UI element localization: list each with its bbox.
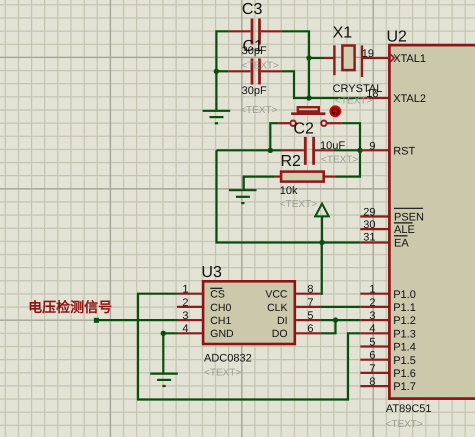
svg-text:8: 8: [307, 284, 313, 296]
svg-text:CLK: CLK: [267, 302, 287, 314]
svg-text:10uF: 10uF: [320, 140, 345, 152]
svg-text:X1: X1: [333, 25, 353, 42]
svg-text:ADC0832: ADC0832: [204, 353, 252, 365]
svg-text:EA: EA: [394, 237, 409, 249]
svg-text:4: 4: [369, 323, 375, 335]
svg-text:29: 29: [363, 206, 375, 218]
svg-text:电压检测信号: 电压检测信号: [28, 299, 112, 315]
svg-text:P1.5: P1.5: [393, 355, 416, 367]
svg-text:P1.4: P1.4: [393, 342, 416, 354]
svg-text:AT89C51: AT89C51: [386, 403, 432, 415]
svg-text:RST: RST: [393, 145, 415, 157]
svg-text:19: 19: [362, 48, 374, 60]
svg-text:6: 6: [307, 323, 313, 335]
svg-text:1: 1: [369, 284, 375, 296]
svg-text:<TEXT>: <TEXT>: [240, 105, 277, 116]
svg-text:R2: R2: [281, 153, 302, 170]
svg-text:<TEXT>: <TEXT>: [321, 154, 358, 165]
svg-text:7: 7: [307, 297, 313, 309]
svg-text:VCC: VCC: [265, 289, 288, 301]
svg-text:ALE: ALE: [394, 224, 415, 236]
svg-text:CH1: CH1: [210, 315, 231, 327]
svg-text:P1.1: P1.1: [393, 302, 416, 314]
svg-text:C3: C3: [242, 1, 263, 18]
svg-text:GND: GND: [210, 328, 234, 340]
svg-text:1: 1: [182, 284, 188, 296]
svg-text:30pF: 30pF: [242, 45, 267, 57]
svg-text:31: 31: [363, 232, 375, 244]
svg-text:3: 3: [182, 310, 188, 322]
svg-text:PSEN: PSEN: [394, 212, 424, 224]
svg-text:9: 9: [369, 140, 375, 152]
svg-text:8: 8: [369, 376, 375, 388]
svg-text:3: 3: [369, 310, 375, 322]
svg-text:C2: C2: [294, 121, 315, 138]
svg-text:10k: 10k: [280, 185, 298, 197]
svg-text:6: 6: [369, 350, 375, 362]
svg-text:P1.7: P1.7: [393, 381, 416, 393]
svg-text:4: 4: [182, 323, 188, 335]
svg-text:P1.0: P1.0: [393, 289, 416, 301]
svg-text:XTAL1: XTAL1: [393, 53, 426, 65]
svg-text:18: 18: [366, 88, 378, 100]
svg-text:XTAL2: XTAL2: [393, 93, 426, 105]
svg-text:DI: DI: [277, 315, 288, 327]
svg-text:U3: U3: [201, 264, 222, 281]
svg-text:<TEXT>: <TEXT>: [386, 419, 423, 430]
svg-text:P1.3: P1.3: [393, 328, 416, 340]
svg-text:5: 5: [369, 336, 375, 348]
svg-text:CH0: CH0: [210, 302, 231, 314]
svg-text:30: 30: [363, 219, 375, 231]
svg-text:2: 2: [182, 297, 188, 309]
svg-text:30pF: 30pF: [242, 85, 267, 97]
svg-text:<TEXT>: <TEXT>: [242, 60, 279, 71]
svg-text:2: 2: [369, 297, 375, 309]
svg-text:<TEXT>: <TEXT>: [204, 368, 241, 379]
svg-text:DO: DO: [272, 328, 288, 340]
svg-text:P1.2: P1.2: [393, 315, 416, 327]
svg-text:P1.6: P1.6: [393, 368, 416, 380]
svg-text:7: 7: [369, 363, 375, 375]
svg-text:CS: CS: [210, 289, 225, 301]
svg-text:U2: U2: [387, 28, 408, 45]
svg-text:<TEXT>: <TEXT>: [280, 199, 317, 210]
svg-text:5: 5: [307, 310, 313, 322]
